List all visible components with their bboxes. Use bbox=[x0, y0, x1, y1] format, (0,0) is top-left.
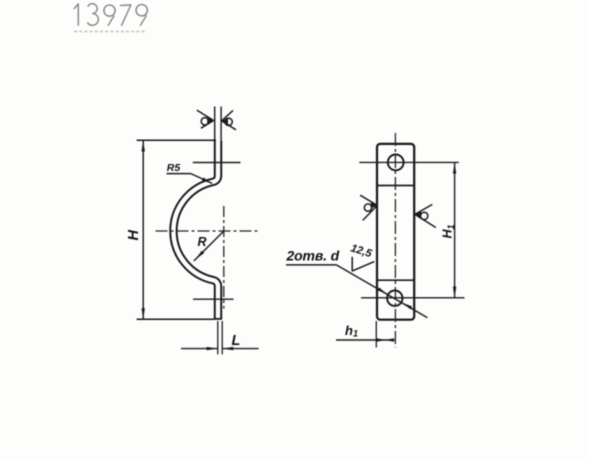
svg-text:2отв. d: 2отв. d bbox=[286, 248, 340, 264]
vertical centerline front view bbox=[394, 133, 396, 348]
dotted underline bbox=[74, 31, 145, 33]
surface finish symbol front-right bbox=[415, 204, 436, 227]
svg-text:h1: h1 bbox=[345, 323, 358, 339]
thickness extension line right (top) bbox=[220, 107, 222, 141]
R5 leader arrow bbox=[202, 178, 212, 184]
bend line lower bbox=[378, 279, 414, 281]
L arrow left bbox=[207, 347, 218, 350]
svg-text:H: H bbox=[126, 230, 142, 241]
L extension line left bbox=[217, 321, 219, 354]
H dimension extension top bbox=[137, 139, 216, 141]
H dimension line bbox=[142, 141, 144, 320]
strap outline front view bbox=[377, 144, 414, 320]
hole centerline bottom (side view) bbox=[193, 298, 234, 300]
roughness tick vertical stroke bbox=[351, 257, 353, 271]
L arrow right bbox=[222, 347, 233, 350]
strip bottom end face bbox=[214, 318, 222, 320]
H1 arrow top bbox=[453, 163, 456, 174]
surface finish symbol right bbox=[221, 110, 236, 129]
R5 leader line bbox=[191, 174, 212, 184]
clamp profile outer bbox=[173, 140, 218, 319]
surface finish symbol front-left bbox=[360, 195, 377, 220]
h1 arrow pointing right bbox=[385, 338, 394, 342]
H1 dimension line bbox=[454, 163, 456, 298]
svg-text:H1: H1 bbox=[441, 224, 457, 238]
hole bottom bbox=[387, 291, 402, 306]
R5 leader shelf bbox=[167, 173, 191, 175]
2otv arrow upper-left bbox=[377, 287, 387, 294]
roughness tick slanted stroke bbox=[352, 262, 375, 272]
H arrow top bbox=[142, 141, 145, 152]
bottom hole horizontal centerline / H1 extension bbox=[361, 297, 465, 299]
document number 13979 bbox=[74, 4, 147, 26]
radius leader R bbox=[194, 231, 224, 261]
2otv leader diagonal bbox=[336, 265, 427, 318]
h1 extension line (left edge extended) bbox=[375, 321, 377, 348]
svg-text:L: L bbox=[232, 333, 241, 349]
2otv leader shelf bbox=[286, 264, 336, 266]
H dimension extension bottom bbox=[137, 318, 214, 320]
hole top bbox=[388, 155, 404, 171]
L dimension line right segment bbox=[222, 348, 258, 350]
clamp profile inner white bbox=[173, 139, 218, 318]
2otv arrow lower-right bbox=[403, 303, 413, 310]
top hole horizontal centerline / H1 extension bbox=[359, 161, 459, 163]
arc vertical centerline bbox=[223, 206, 225, 309]
h1 dimension line bbox=[336, 339, 394, 341]
H arrow bottom bbox=[142, 308, 145, 319]
L extension line right bbox=[221, 321, 223, 354]
h1 arrow pointing left bbox=[377, 338, 386, 342]
hole centerline top (side view) bbox=[193, 162, 241, 164]
arc horizontal centerline bbox=[156, 230, 260, 232]
L dimension line left segment bbox=[181, 348, 218, 350]
radius leader arrow bbox=[195, 251, 204, 260]
thickness extension line left (top) bbox=[214, 107, 216, 141]
H1 arrow bottom bbox=[453, 287, 456, 298]
svg-text:R: R bbox=[198, 235, 207, 249]
bend line upper bbox=[378, 185, 414, 187]
surface finish symbol left bbox=[197, 110, 214, 128]
svg-text:R5: R5 bbox=[167, 162, 181, 174]
